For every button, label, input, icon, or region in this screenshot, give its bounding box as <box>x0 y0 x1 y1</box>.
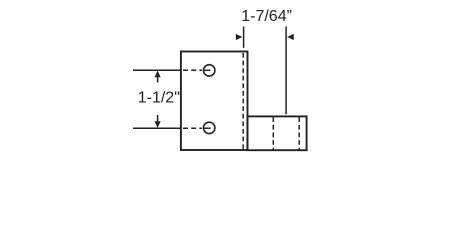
horizontal dimension left arrow <box>236 34 243 40</box>
svg-text:1-1/2": 1-1/2" <box>138 90 180 107</box>
hidden edge dashed line in plate <box>242 53 244 149</box>
centerline dashes bottom hole <box>183 127 202 129</box>
main plate rectangle <box>181 52 248 151</box>
boss rectangle <box>247 116 306 150</box>
hidden hole dashed line left <box>272 117 274 149</box>
svg-text:1-7/64”: 1-7/64” <box>241 8 292 25</box>
bottom hole center dash <box>204 127 210 129</box>
horizontal dimension right extension line <box>285 27 287 115</box>
horizontal dimension left extension line <box>243 27 245 48</box>
hidden hole dashed line right <box>298 117 300 149</box>
centerline dashes top hole <box>183 69 202 71</box>
top hole center dash <box>204 69 210 71</box>
horizontal dimension right arrow <box>287 34 294 40</box>
vertical dimension down arrow <box>157 115 159 122</box>
vertical dimension up arrow <box>155 71 161 78</box>
leader line top hole <box>133 69 181 71</box>
top hole circle <box>204 65 215 76</box>
bottom hole circle <box>204 122 215 133</box>
leader line bottom hole <box>133 127 181 129</box>
